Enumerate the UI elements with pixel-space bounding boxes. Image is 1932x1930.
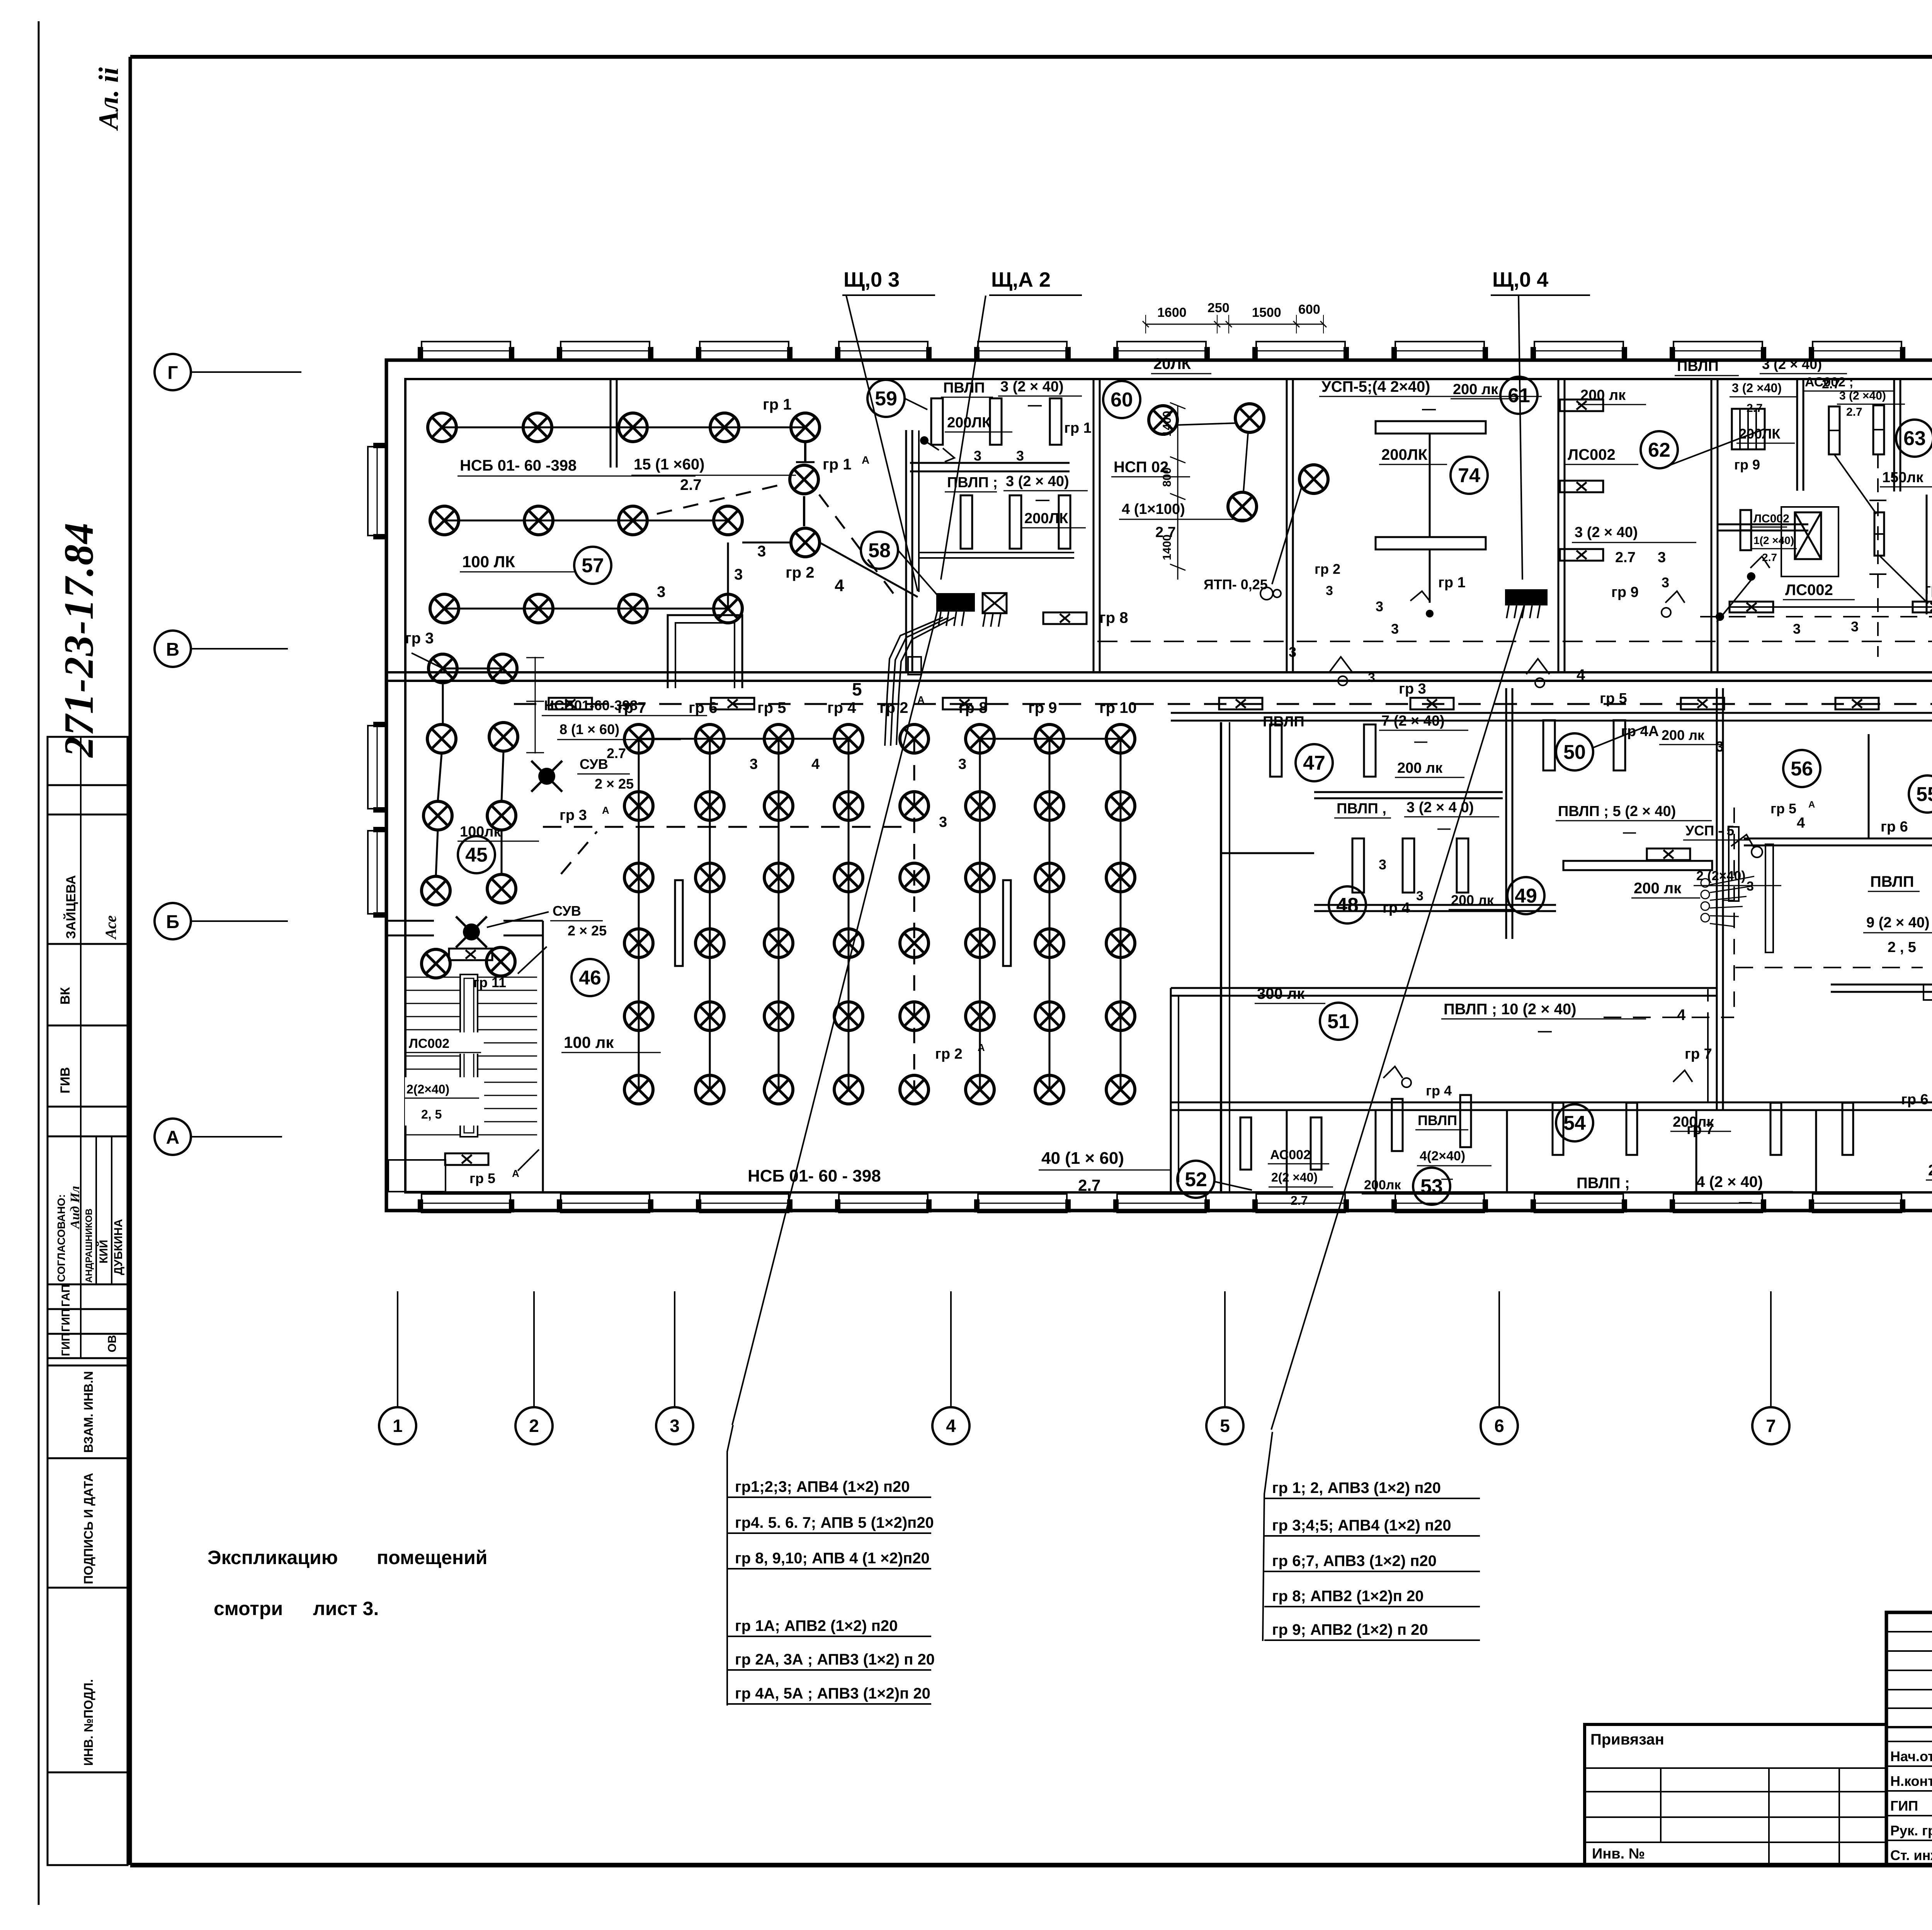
svg-text:ВЗАМ. ИНВ.N: ВЗАМ. ИНВ.N — [82, 1371, 95, 1453]
room47 number — [1296, 744, 1333, 781]
svg-text:3: 3 — [750, 756, 758, 772]
svg-text:гр 1; 2, АПВ3 (1×2) п20: гр 1; 2, АПВ3 (1×2) п20 — [1272, 1479, 1441, 1496]
svg-text:гр 1: гр 1 — [1438, 575, 1466, 591]
svg-text:гр 1: гр 1 — [763, 396, 791, 413]
svg-text:4: 4 — [946, 1416, 956, 1436]
bottom rooms partitions — [1286, 1110, 1288, 1192]
svg-text:3: 3 — [1016, 448, 1024, 464]
svg-text:гр 2: гр 2 — [1315, 561, 1340, 577]
svg-text:А: А — [166, 1127, 180, 1148]
partition room57 upper right — [610, 379, 612, 468]
svg-text:ОВ: ОВ — [106, 1335, 119, 1352]
lamp гр1А — [790, 465, 818, 494]
svg-text:4 (1×100): 4 (1×100) — [1122, 501, 1185, 517]
svg-text:ЛС002: ЛС002 — [409, 1036, 449, 1051]
svg-text:600: 600 — [1298, 302, 1320, 317]
room58 number — [861, 532, 898, 569]
svg-text:гр 2А, 3А ; АПВ3 (1×2) п 20: гр 2А, 3А ; АПВ3 (1×2) п 20 — [735, 1651, 935, 1668]
svg-text:ГИП: ГИП — [60, 1309, 72, 1332]
lower corridor walls room51 — [1171, 987, 1717, 989]
left title box Привязан — [1585, 1724, 1886, 1865]
svg-text:СОГЛАСОВАНО:: СОГЛАСОВАНО: — [55, 1194, 67, 1282]
svg-text:3 (2 ×40): 3 (2 ×40) — [1732, 381, 1782, 395]
svg-text:А: А — [917, 694, 925, 706]
room58 counter — [910, 462, 1070, 464]
room62 number — [1641, 431, 1678, 468]
svg-text:—: — — [1441, 1172, 1453, 1185]
room49 — [1507, 877, 1544, 914]
svg-text:3 (2 × 40): 3 (2 × 40) — [1000, 379, 1064, 395]
svg-text:49: 49 — [1515, 885, 1537, 907]
svg-text:2 , 5: 2 , 5 — [1888, 939, 1916, 956]
svg-text:гр 10: гр 10 — [1099, 699, 1137, 716]
svg-text:150лк: 150лк — [1882, 469, 1924, 486]
svg-text:Аид Ил: Аид Ил — [68, 1186, 82, 1229]
svg-text:ПВЛП: ПВЛП — [943, 380, 985, 396]
svg-text:3 (2 × 40): 3 (2 × 40) — [1762, 356, 1822, 372]
svg-text:200 лк: 200 лк — [1634, 880, 1682, 897]
svg-text:54: 54 — [1563, 1112, 1586, 1134]
svg-text:20ЛК: 20ЛК — [1153, 355, 1191, 372]
bottom-left stairwell — [406, 977, 537, 978]
long leader to right table — [1271, 605, 1524, 1430]
svg-text:800: 800 — [1161, 468, 1173, 487]
svg-text:НСБ 01- 60 -398: НСБ 01- 60 -398 — [460, 457, 577, 474]
row marker Г — [155, 354, 191, 390]
svg-text:3: 3 — [1716, 739, 1724, 755]
lamp row C room57 — [444, 608, 728, 610]
svg-text:УСП-5;(4 2×40): УСП-5;(4 2×40) — [1321, 378, 1430, 395]
svg-text:4: 4 — [835, 576, 844, 595]
svg-text:Ал. ii: Ал. ii — [93, 67, 124, 131]
lamp grid room45 — [427, 724, 456, 753]
black switchboard ЩО4 — [1505, 589, 1548, 605]
svg-text:ЛС002: ЛС002 — [1785, 582, 1833, 599]
svg-text:51: 51 — [1327, 1010, 1350, 1033]
svg-text:гр 8; АПВ2 (1×2)п 20: гр 8; АПВ2 (1×2)п 20 — [1272, 1588, 1424, 1605]
svg-text:гр 3: гр 3 — [560, 807, 587, 823]
svg-text:гр 3: гр 3 — [405, 630, 434, 647]
partition room 50-56 — [1716, 688, 1718, 1110]
svg-text:58: 58 — [868, 539, 891, 562]
bottom-left vestibule — [388, 1160, 446, 1192]
svg-text:КИЙ: КИЙ — [97, 1240, 110, 1263]
room45 bottom wall with door — [386, 920, 434, 922]
column marker 2 — [533, 1291, 535, 1408]
room60 lamps — [1149, 406, 1177, 434]
left feeder table — [727, 1425, 733, 1706]
svg-text:ГИП: ГИП — [60, 1333, 72, 1356]
svg-text:ПВЛП: ПВЛП — [1677, 358, 1719, 374]
svg-text:—: — — [1028, 397, 1042, 413]
dimension string 1600 250 1500 600 — [1146, 324, 1323, 325]
svg-text:гр 11: гр 11 — [473, 974, 506, 990]
room63 number — [1896, 420, 1932, 457]
svg-text:6: 6 — [1494, 1416, 1504, 1436]
svg-text:271-23-17.84: 271-23-17.84 — [56, 522, 102, 758]
svg-text:2.7: 2.7 — [1078, 1176, 1100, 1194]
svg-text:200ЛК: 200ЛК — [1024, 510, 1068, 527]
svg-text:лист 3.: лист 3. — [313, 1598, 379, 1619]
svg-text:3: 3 — [1416, 889, 1423, 903]
corridor wiring dashed гр4А — [514, 703, 1932, 705]
svg-text:гр 9; АПВ2 (1×2) п 20: гр 9; АПВ2 (1×2) п 20 — [1272, 1621, 1428, 1638]
svg-text:А: А — [1808, 799, 1815, 810]
svg-text:4: 4 — [1797, 815, 1805, 831]
svg-text:гр 6: гр 6 — [689, 699, 717, 716]
svg-text:60: 60 — [1111, 389, 1133, 411]
wall left of room52 — [1170, 988, 1172, 1192]
column marker 7 — [1770, 1291, 1772, 1408]
room63 service line with гр8 — [1730, 606, 1932, 608]
partition rooms60-74 — [1286, 379, 1288, 672]
svg-text:УСП - 5: УСП - 5 — [1685, 823, 1734, 838]
dashed wire along upper corridor — [1097, 641, 1932, 642]
svg-text:гр 4: гр 4 — [1426, 1083, 1452, 1098]
wires room63 — [1834, 454, 1876, 514]
corridor fixtures — [549, 698, 592, 709]
svg-text:200 лк: 200 лк — [1928, 1162, 1932, 1179]
svg-text:15 (1 ×60): 15 (1 ×60) — [634, 456, 704, 473]
building outer wall — [386, 360, 1932, 1211]
svg-text:2.7: 2.7 — [1762, 551, 1777, 563]
svg-text:250: 250 — [1207, 301, 1230, 315]
partition room50 right — [1505, 688, 1507, 939]
room60 number — [1103, 381, 1140, 418]
svg-text:1500: 1500 — [1252, 305, 1281, 320]
windows along top wall — [422, 342, 510, 360]
room number 57 — [574, 547, 611, 584]
switch symbols corridor — [1329, 657, 1352, 672]
signature table rows — [1886, 1741, 1932, 1742]
leader Щ03 to board — [846, 296, 918, 591]
room54 switch — [1673, 1070, 1692, 1082]
room52 — [1177, 1161, 1214, 1198]
svg-text:НСБ01-60-398: НСБ01-60-398 — [544, 697, 638, 713]
svg-text:гр 6: гр 6 — [1881, 819, 1908, 835]
svg-text:40 (1 × 60): 40 (1 × 60) — [1041, 1149, 1124, 1168]
svg-text:3 (2 × 4 0): 3 (2 × 4 0) — [1406, 799, 1474, 816]
room61 number — [1500, 377, 1537, 414]
room62 striped fixture — [1732, 409, 1765, 449]
svg-text:200ЛК: 200ЛК — [1381, 446, 1428, 463]
svg-text:АС002: АС002 — [1270, 1148, 1311, 1162]
svg-text:Привязан: Привязан — [1590, 1731, 1664, 1748]
room74 switch — [1410, 591, 1430, 601]
svg-text:48: 48 — [1336, 894, 1359, 917]
svg-text:гр 5: гр 5 — [757, 699, 786, 716]
svg-text:гр 5: гр 5 — [469, 1170, 495, 1186]
room55 — [1909, 775, 1932, 813]
svg-text:Инв. №: Инв. № — [1592, 1846, 1645, 1862]
upper small table — [1886, 1631, 1932, 1632]
svg-text:гр 2: гр 2 — [935, 1046, 963, 1062]
room50 — [1556, 733, 1593, 770]
room64 wall — [1926, 495, 1928, 614]
svg-text:гр 9: гр 9 — [1734, 457, 1760, 473]
svg-text:200 лк: 200 лк — [1451, 892, 1494, 908]
room56 — [1783, 750, 1820, 787]
svg-text:200 лк: 200 лк — [1662, 727, 1705, 743]
СУВ lamp upper — [538, 768, 555, 785]
svg-text:200 лк: 200 лк — [1397, 760, 1443, 776]
svg-text:3: 3 — [1376, 599, 1383, 614]
svg-text:62: 62 — [1648, 439, 1670, 461]
svg-text:—: — — [1422, 401, 1436, 417]
room59 fixtures row1 — [931, 398, 943, 445]
svg-text:2.7: 2.7 — [1615, 549, 1636, 566]
svg-text:4 (2 × 40): 4 (2 × 40) — [1696, 1173, 1763, 1190]
svg-text:ГАП: ГАП — [60, 1284, 72, 1307]
svg-text:Щ,0 3: Щ,0 3 — [844, 268, 900, 291]
drawing frame border — [130, 55, 1932, 59]
svg-text:200ЛК: 200ЛК — [947, 415, 991, 431]
svg-text:гр 9: гр 9 — [1611, 584, 1639, 600]
svg-text:ПВЛП: ПВЛП — [1263, 714, 1304, 730]
svg-text:200ЛК: 200ЛК — [1739, 426, 1781, 442]
svg-text:гр 5: гр 5 — [1600, 690, 1627, 707]
svg-text:гр 2: гр 2 — [786, 564, 814, 581]
svg-text:2 × 25: 2 × 25 — [568, 923, 607, 939]
right feeder table — [1263, 1432, 1272, 1641]
room56 thin bar — [1765, 844, 1773, 952]
svg-text:В: В — [166, 639, 180, 660]
svg-text:46: 46 — [579, 967, 601, 989]
svg-text:гр 1А; АПВ2 (1×2) п20: гр 1А; АПВ2 (1×2) п20 — [735, 1617, 898, 1634]
switch room53 — [1383, 1066, 1403, 1078]
svg-text:Щ,А 2: Щ,А 2 — [991, 268, 1051, 291]
leader ЩА2 to board — [941, 296, 986, 580]
svg-text:100 лк: 100 лк — [564, 1033, 614, 1051]
svg-text:—: — — [1036, 491, 1049, 507]
svg-text:3: 3 — [1326, 583, 1333, 598]
svg-text:2 × 25: 2 × 25 — [595, 776, 634, 792]
svg-text:—: — — [1623, 825, 1636, 840]
partition under room47 — [1314, 791, 1503, 793]
svg-text:3: 3 — [734, 566, 743, 583]
svg-text:АНДРАШНИКОВ: АНДРАШНИКОВ — [84, 1209, 94, 1283]
room55 lower wall — [1831, 984, 1932, 986]
svg-text:смотри: смотри — [214, 1598, 283, 1619]
svg-text:2, 5: 2, 5 — [421, 1107, 442, 1121]
svg-text:61: 61 — [1508, 384, 1530, 407]
lamp row B room57 — [444, 520, 728, 522]
svg-text:3 (2 ×40): 3 (2 ×40) — [1839, 389, 1886, 402]
svg-text:ЯТП- 0,25: ЯТП- 0,25 — [1204, 576, 1268, 592]
svg-text:50: 50 — [1563, 741, 1586, 763]
room number 46 — [571, 959, 609, 996]
svg-text:гр 4: гр 4 — [827, 699, 856, 716]
svg-text:гр 4А: гр 4А — [1621, 723, 1659, 740]
small shaft room63 — [1781, 507, 1838, 576]
hall46 lamp grid with group risers — [638, 739, 640, 1090]
partition AC002-lift — [1893, 379, 1895, 491]
svg-text:3: 3 — [657, 583, 665, 600]
svg-text:СУВ: СУВ — [553, 903, 581, 919]
column marker 6 — [1498, 1291, 1500, 1408]
partition rooms61-62 — [1711, 379, 1713, 672]
svg-text:Рук. гр.: Рук. гр. — [1890, 1823, 1932, 1838]
svg-text:помещений: помещений — [377, 1547, 488, 1568]
svg-text:4: 4 — [1577, 667, 1585, 684]
room59 number — [867, 380, 905, 417]
svg-text:45: 45 — [465, 844, 488, 866]
column marker 1 — [397, 1291, 398, 1408]
СУВ lamp lower — [463, 923, 480, 940]
svg-text:1600: 1600 — [1157, 305, 1187, 320]
svg-text:гр 6;7, АПВ3 (1×2) п20: гр 6;7, АПВ3 (1×2) п20 — [1272, 1553, 1437, 1570]
svg-text:гр 4А, 5А ; АПВ3 (1×2)п 20: гр 4А, 5А ; АПВ3 (1×2)п 20 — [735, 1685, 930, 1702]
svg-text:8 (1 × 60): 8 (1 × 60) — [560, 721, 619, 737]
svg-text:3: 3 — [958, 756, 966, 772]
svg-text:56: 56 — [1791, 758, 1813, 780]
svg-text:3: 3 — [1793, 621, 1801, 637]
svg-text:Ст. инж.: Ст. инж. — [1890, 1847, 1932, 1863]
svg-text:ЗАЙЦЕВА: ЗАЙЦЕВА — [63, 875, 78, 939]
svg-text:55: 55 — [1916, 783, 1932, 806]
row marker А — [155, 1119, 191, 1155]
svg-text:гр 5: гр 5 — [1770, 801, 1796, 816]
partition rooms74-61 — [1558, 379, 1560, 672]
svg-text:3 (2 × 40): 3 (2 × 40) — [1006, 473, 1069, 490]
partition rooms62-63 — [1796, 379, 1798, 491]
svg-text:5: 5 — [852, 679, 862, 699]
svg-text:АС002 ;: АС002 ; — [1805, 375, 1854, 389]
svg-text:гр 6: гр 6 — [1901, 1092, 1929, 1108]
room48 fixtures — [1352, 838, 1364, 893]
svg-text:гр 8, 9,10; АПВ 4 (1 ×2)п20: гр 8, 9,10; АПВ 4 (1 ×2)п20 — [735, 1550, 930, 1567]
room47 fixtures — [1270, 724, 1282, 777]
svg-text:3: 3 — [1662, 575, 1669, 590]
room54 — [1556, 1104, 1593, 1141]
svg-text:гр 1: гр 1 — [823, 456, 851, 473]
svg-text:ГИВ: ГИВ — [58, 1067, 73, 1093]
corridor south wall middle band — [1171, 712, 1932, 714]
building inner wall line — [405, 379, 1932, 1192]
svg-text:Экспликацию: Экспликацию — [207, 1547, 338, 1568]
svg-text:74: 74 — [1458, 464, 1480, 487]
hatched box ЩА2 — [983, 593, 1007, 613]
svg-text:НСБ 01- 60 - 398: НСБ 01- 60 - 398 — [748, 1167, 881, 1185]
row marker Б — [155, 903, 191, 939]
svg-text:3: 3 — [1658, 549, 1666, 566]
vertical dimension chain — [1177, 406, 1179, 580]
room49 spiral stair fan — [1729, 827, 1739, 901]
partition room58 left wall — [905, 430, 907, 672]
svg-text:А: А — [978, 1042, 985, 1053]
svg-text:гр 1: гр 1 — [1064, 420, 1092, 436]
riser bundle to lower floor — [885, 617, 943, 746]
svg-text:гр1;2;3; АПВ4 (1×2) п20: гр1;2;3; АПВ4 (1×2) п20 — [735, 1478, 910, 1495]
corridor walls — [386, 671, 1932, 673]
column marker 4 — [950, 1291, 952, 1408]
svg-text:2: 2 — [529, 1416, 539, 1436]
wire гр2 to boards — [820, 542, 918, 597]
dashed link row B — [468, 520, 514, 522]
svg-text:ПВЛП ; 10 (2 × 40): ПВЛП ; 10 (2 × 40) — [1444, 1001, 1577, 1018]
stair label ЛС002 — [406, 1032, 484, 1054]
fixture гр11 — [449, 949, 492, 960]
svg-text:ПВЛП ; 5 (2 × 40): ПВЛП ; 5 (2 × 40) — [1558, 803, 1676, 820]
hall46 pillars — [675, 880, 683, 966]
svg-text:ЛС002: ЛС002 — [1753, 512, 1789, 525]
partition rooms 47-51 left — [1222, 852, 1314, 854]
svg-text:ПВЛП: ПВЛП — [1870, 873, 1914, 890]
partition rooms59-60 — [1093, 379, 1095, 672]
svg-text:4: 4 — [811, 756, 820, 772]
svg-text:3: 3 — [1379, 857, 1386, 872]
room50 fixture bottom — [1563, 861, 1712, 870]
svg-text:Нач.отд.: Нач.отд. — [1890, 1748, 1932, 1764]
room51 corridor — [1320, 1003, 1357, 1040]
svg-text:3: 3 — [1368, 670, 1375, 685]
lamp гр2 node — [791, 528, 820, 557]
room63 fixtures with ticks — [1829, 406, 1840, 454]
svg-text:300 лк: 300 лк — [1257, 985, 1305, 1002]
leader Щ04 to board — [1519, 296, 1522, 580]
wall left of room47 column — [1220, 722, 1222, 1192]
column marker 3 — [674, 1291, 675, 1408]
svg-text:гр 9: гр 9 — [1028, 699, 1057, 716]
dashed wire гр3А — [543, 826, 914, 828]
svg-text:2.7: 2.7 — [607, 745, 626, 761]
svg-text:200лк: 200лк — [1364, 1178, 1401, 1192]
dashed riser room63 — [1877, 454, 1879, 657]
svg-text:—: — — [1414, 734, 1427, 749]
svg-text:—: — — [1437, 821, 1451, 836]
svg-text:2(2×40): 2(2×40) — [406, 1082, 449, 1096]
svg-text:гр 4: гр 4 — [1383, 900, 1410, 916]
svg-text:гр 2: гр 2 — [879, 699, 908, 716]
svg-text:гр 8: гр 8 — [959, 699, 987, 716]
svg-text:1400: 1400 — [1161, 411, 1173, 437]
svg-text:2.7: 2.7 — [1846, 406, 1862, 418]
partition room56-55 — [1868, 734, 1870, 839]
svg-text:200 лк: 200 лк — [1580, 387, 1626, 403]
room55 dashed гр5А — [1735, 967, 1923, 968]
svg-text:63: 63 — [1903, 427, 1926, 450]
svg-text:4: 4 — [1677, 1007, 1686, 1024]
svg-text:ПВЛП ;: ПВЛП ; — [1577, 1175, 1630, 1192]
svg-text:Г: Г — [167, 363, 178, 383]
svg-text:2.7: 2.7 — [1291, 1194, 1308, 1207]
svg-text:гр4. 5. 6. 7; АПВ 5 (1×2)п20: гр4. 5. 6. 7; АПВ 5 (1×2)п20 — [735, 1514, 934, 1531]
svg-text:53: 53 — [1420, 1175, 1443, 1198]
svg-text:3: 3 — [939, 814, 947, 830]
svg-text:2.7: 2.7 — [680, 476, 702, 493]
svg-text:1: 1 — [393, 1416, 403, 1436]
room59 fixtures row2 — [961, 495, 972, 549]
left margin attribute boxes — [48, 737, 128, 785]
column marker 5 — [1224, 1291, 1226, 1408]
svg-text:9 (2 × 40): 9 (2 × 40) — [1866, 915, 1930, 931]
board tails — [939, 612, 941, 626]
paper edge line — [38, 21, 40, 1905]
svg-text:ПОДПИСЬ И ДАТА: ПОДПИСЬ И ДАТА — [82, 1473, 95, 1584]
label НСБ01-60-398 8(1x60) 27 room45 — [535, 657, 536, 753]
svg-text:ДУБКИНА: ДУБКИНА — [112, 1219, 125, 1275]
lamp row гр1 room57 — [442, 427, 805, 429]
node dot room58 — [920, 436, 929, 445]
room74 furniture — [1376, 421, 1486, 434]
svg-text:—: — — [1538, 1023, 1552, 1039]
svg-text:Асе: Асе — [102, 915, 119, 940]
svg-text:200 лк: 200 лк — [1453, 381, 1498, 398]
svg-text:Н.контр.: Н.контр. — [1890, 1773, 1932, 1789]
svg-text:гр 8: гр 8 — [1099, 609, 1128, 626]
svg-text:Б: Б — [166, 912, 180, 932]
black switchboard ЩО3 — [936, 593, 975, 612]
